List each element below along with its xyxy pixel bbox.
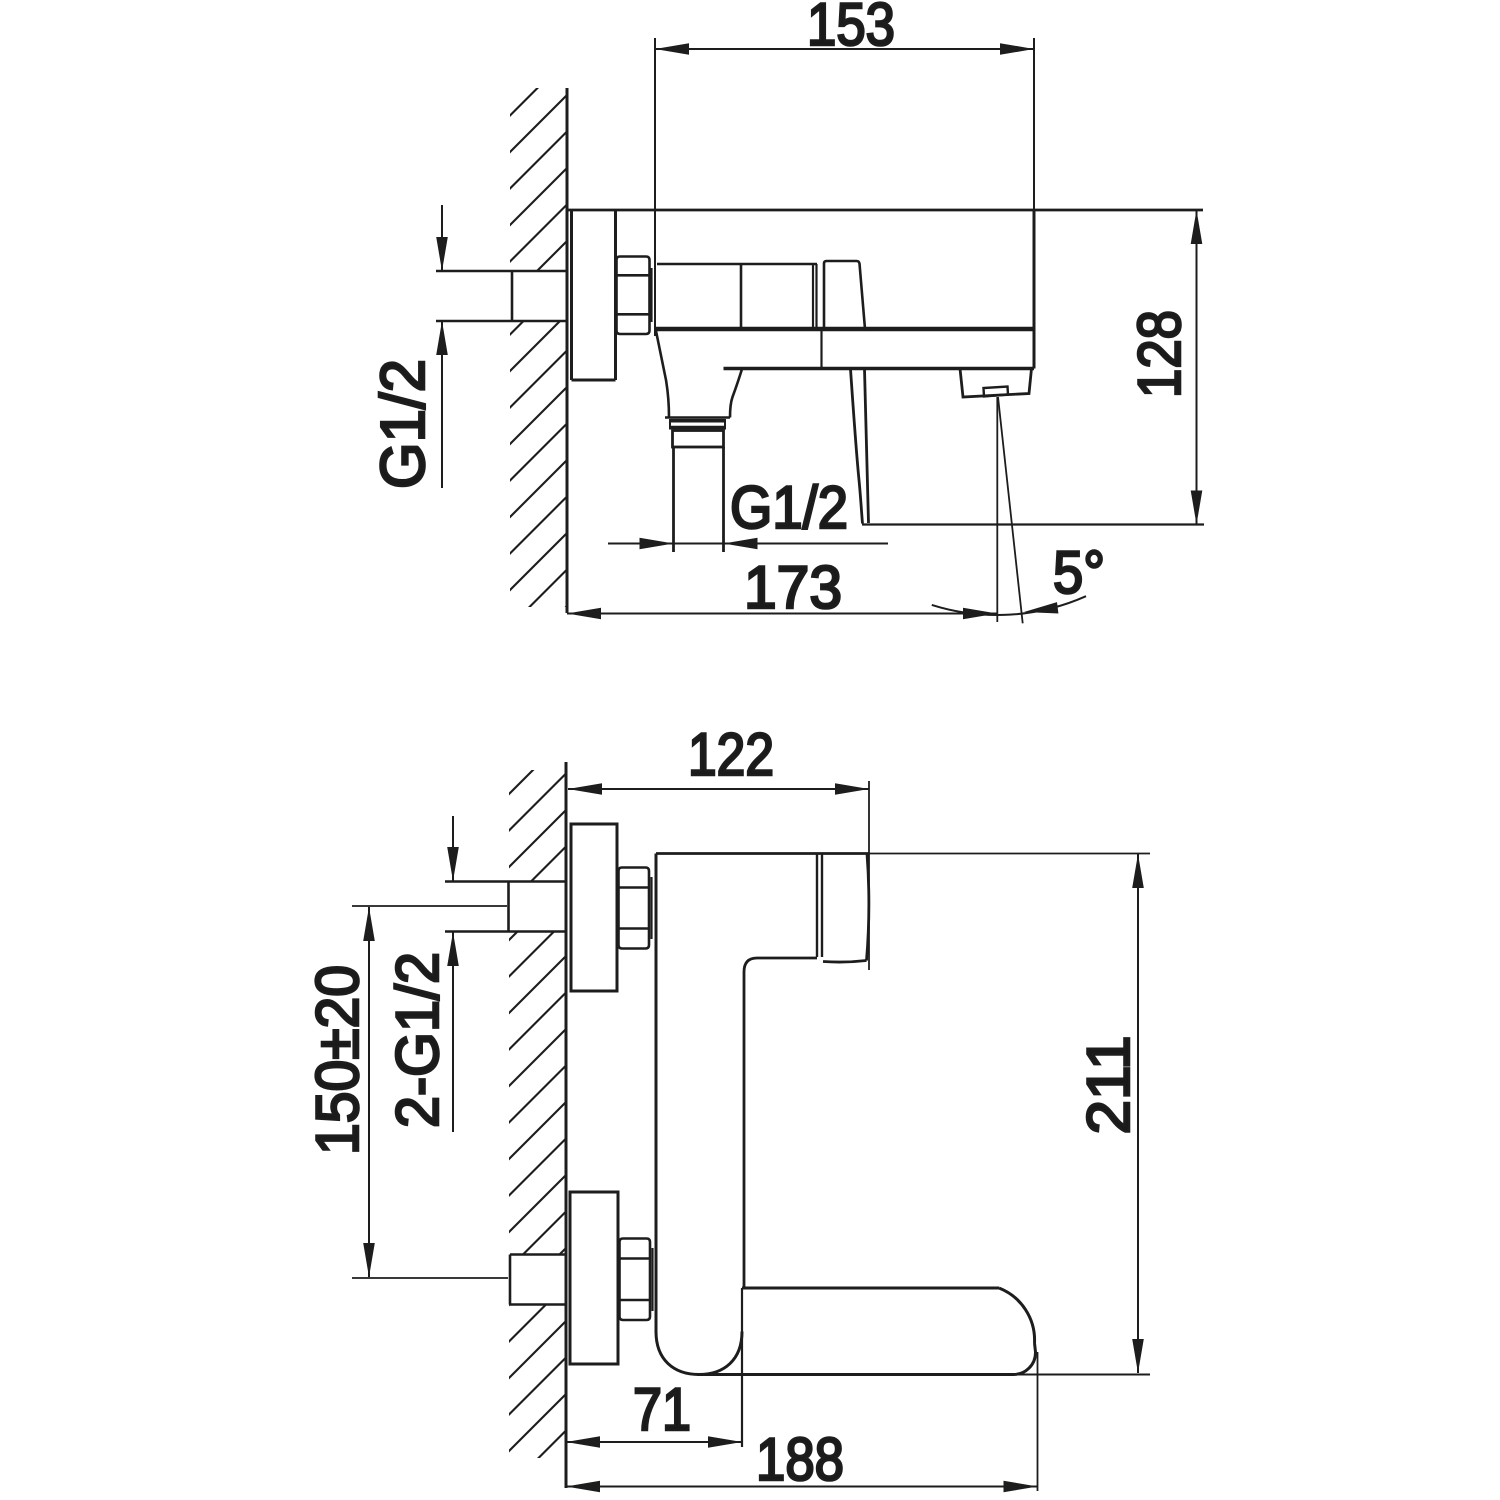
handle knob stem lines (side view) [816,854,818,958]
handle stem left line [812,264,814,328]
5 degree angle arc [932,596,1086,615]
128 dimension line [1196,210,1198,525]
supply pipe eccentric (front view) [436,270,567,272]
G1/2 left dimension line upper part [441,205,443,271]
faucet body top line [567,209,1203,212]
handle lever left edge (front view) [851,369,863,524]
188 right extension line [1037,1352,1039,1491]
wall hatching (front view) [505,20,569,668]
211 top extension line [869,853,1150,855]
spout aerator insert [984,387,1009,397]
handle stem right line [815,264,817,328]
spout aerator housing [960,369,1032,398]
faucet body bottom line [655,327,1034,332]
150 upper extension line [352,905,507,907]
handle knob right edge (side view) [867,854,869,961]
upper supply pipe (side view) [445,880,566,882]
shower outlet pipe right edge [722,447,725,552]
svg-text:G1/2: G1/2 [730,474,848,541]
shower outlet neck right edge [730,369,742,418]
shower outlet flange line [665,416,730,419]
faucet body rounded bottom (side view) [656,1332,742,1375]
173 dimension line [567,613,997,615]
arm-to-body fillet [744,958,757,972]
svg-text:211: 211 [1075,1036,1142,1135]
lower wall flange plate (side view) [570,1192,618,1364]
spout bottom line (side view) [697,1373,1013,1376]
122 dimension line [568,788,869,790]
handle arm top line (side view) [656,852,869,855]
faucet body right edge (side view) [743,972,746,1288]
handle arm bottom line (side view) [757,957,817,960]
svg-text:188: 188 [756,1426,844,1493]
wall flange plate (front view) [570,210,573,380]
faucet body lower plate line [724,367,1035,371]
faucet body left edge (side view) [655,854,658,1334]
5 degree slanted stream line [998,397,1023,623]
shower outlet neck left edge [656,331,669,418]
211 dimension line [1137,854,1139,1373]
svg-text:128: 128 [1126,310,1193,398]
188 dimension line [566,1486,1038,1488]
wall line (side view) [565,762,568,1488]
handle knob bottom edge (side view) [823,961,867,963]
2-G1/2 dimension line lower part [452,932,454,1132]
shower outlet pipe left edge [672,447,675,552]
svg-text:5°: 5° [1053,539,1105,606]
122 right extension line [868,781,870,970]
svg-text:153: 153 [807,0,895,58]
wall line (front view) [566,88,569,613]
153 right extension line [1033,38,1035,210]
spout top line (side view) [742,1287,999,1290]
lower supply pipe (side view) [510,1253,566,1256]
hex nut (front view) [617,257,652,335]
cartridge housing divider [740,264,743,328]
2-G1/2 dimension line upper part [452,816,454,881]
G1/2 middle dimension line [608,543,888,545]
svg-text:71: 71 [633,1376,691,1443]
cartridge housing top line [657,263,817,266]
svg-text:150±20: 150±20 [304,965,371,1155]
faucet body right edge [1033,210,1036,369]
150 dimension line [368,907,370,1277]
svg-text:G1/2: G1/2 [369,359,438,489]
71 right extension line [741,1288,743,1447]
153 left extension line [654,38,656,336]
handle knob (front view) [824,261,865,329]
upper wall flange plate (side view) [571,824,617,991]
svg-text:173: 173 [744,554,842,621]
handle lever right edge (front view) [865,369,869,523]
upper hex nut (side view) [619,868,652,949]
svg-text:2-G1/2: 2-G1/2 [384,952,451,1128]
spout rounded end top arc [999,1288,1035,1343]
5 degree vertical reference line [996,397,998,622]
150 lower extension line [352,1277,508,1279]
hose nipple ridge [670,419,725,423]
211 bottom extension line [1013,1374,1150,1376]
71 dimension line [566,1441,742,1443]
handle stem lower segment [820,331,822,367]
hose nipple collar [673,431,724,448]
128 bottom reference line [862,523,1204,525]
lower hex nut (side view) [620,1239,653,1321]
spout rounded end bottom arc [1013,1343,1036,1375]
153 dimension line [655,48,1034,50]
G1/2 left dimension line lower part [441,321,443,488]
svg-text:122: 122 [688,721,774,788]
wall hatching (side view) [504,735,568,1493]
